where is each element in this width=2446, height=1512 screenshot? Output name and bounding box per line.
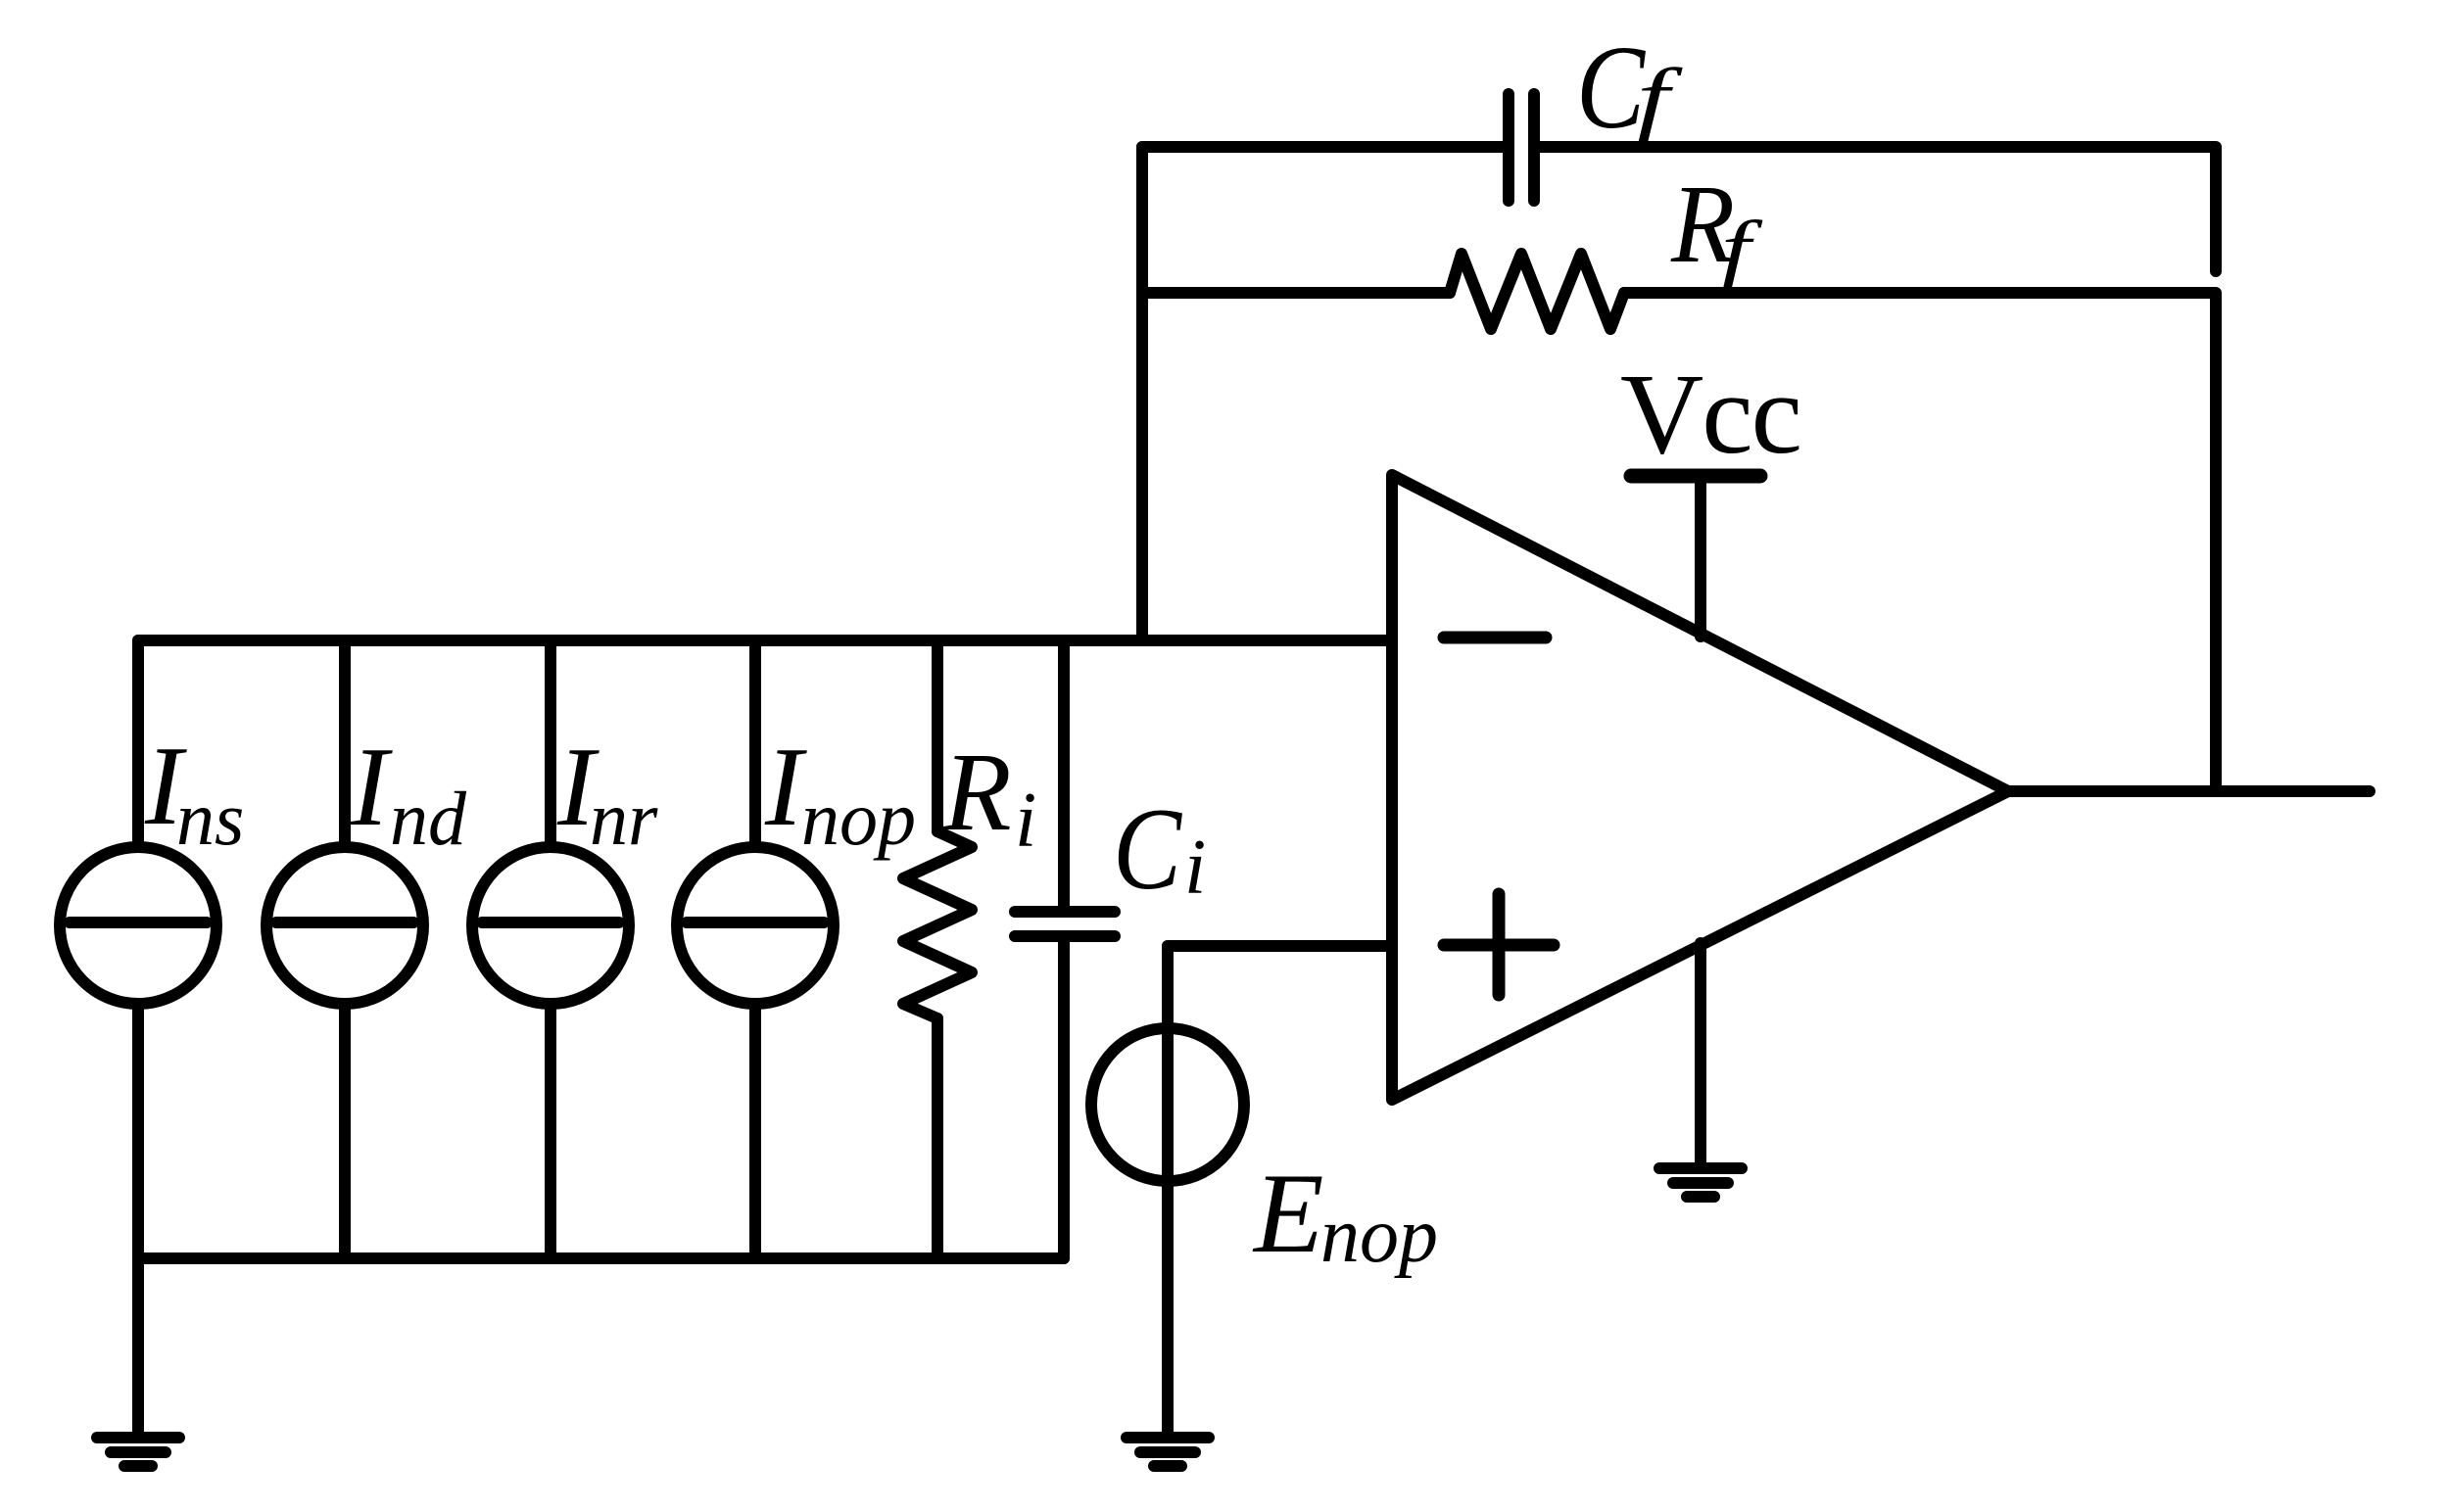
voltage source Enop — [1091, 1028, 1244, 1181]
wire: Inr branch top stem — [545, 640, 556, 847]
wire: Inop branch top stem — [749, 640, 761, 847]
wire: top input bus from I_ns branch to op-amp inverting input — [138, 635, 1392, 646]
svg-text:nop: nop — [1320, 1193, 1438, 1279]
current source Inr — [472, 847, 629, 1004]
wire: output lead from op-amp to right edge — [2008, 785, 2370, 797]
wire: Ci branch top stem — [1058, 640, 1070, 912]
svg-text:nr: nr — [590, 776, 658, 861]
wire: Rf left lead from feedback vertical — [1142, 287, 1450, 299]
wire: Enop vertical through source to ground — [1162, 946, 1174, 1432]
wire: left ground stem — [132, 1258, 144, 1432]
svg-text:I: I — [350, 725, 393, 849]
svg-text:ns: ns — [176, 776, 244, 861]
wire: Vcc stem to op-amp top edge — [1695, 480, 1706, 637]
ground: op-amp negative supply — [1659, 1162, 1742, 1174]
svg-text:nop: nop — [801, 776, 916, 861]
wire: Inr branch bottom stem — [545, 1004, 556, 1258]
svg-text:i: i — [1015, 778, 1036, 864]
resistor Rf — [1450, 254, 1624, 329]
wire: Ins branch top stem — [132, 640, 144, 847]
wire: Ci branch bottom stem — [1058, 936, 1070, 1258]
wire: Ind branch bottom stem — [339, 1004, 351, 1258]
wire: Rf right lead with corner down to output wire — [1624, 293, 2216, 791]
wire: Cf right lead with corner down to Rf level — [1534, 147, 2216, 271]
op-amp non-inverting input plus sign — [1444, 939, 1554, 952]
wire: Ind branch top stem — [339, 640, 351, 847]
capacitor Ci — [1015, 906, 1115, 918]
current source Ins — [60, 847, 216, 1004]
ground: left input network — [97, 1432, 179, 1443]
current source Inop — [677, 847, 834, 1004]
ground: Enop — [1127, 1432, 1209, 1443]
wire: bottom ground bus — [138, 1252, 1064, 1264]
wire: Cf left lead from feedback vertical to capacitor — [1142, 141, 1509, 153]
wire: Ins branch bottom stem — [132, 1004, 144, 1258]
svg-text:i: i — [1184, 825, 1206, 911]
svg-text:R: R — [942, 730, 1012, 854]
svg-text:Vcc: Vcc — [1620, 350, 1800, 478]
Vcc supply bar — [1631, 469, 1760, 484]
svg-text:nd: nd — [390, 776, 467, 861]
op-amp U1 triangle — [1392, 475, 2008, 1100]
wire: Ri branch top stem — [932, 640, 943, 831]
svg-text:E: E — [1252, 1151, 1323, 1277]
capacitor Cf — [1503, 94, 1514, 201]
svg-text:C: C — [1576, 22, 1646, 154]
wire: Inop branch bottom stem — [749, 1004, 761, 1258]
op-amp inverting input minus sign — [1444, 632, 1546, 644]
svg-text:C: C — [1113, 783, 1183, 914]
wire: op-amp ground stem — [1695, 943, 1706, 1168]
resistor Ri — [903, 831, 972, 1018]
current source Ind — [266, 847, 423, 1004]
wire: non-inverting input lead — [1168, 940, 1392, 952]
wire: feedback left vertical from Cf down to input bus — [1136, 147, 1148, 640]
wire: Ri branch bottom stem — [932, 1018, 943, 1258]
